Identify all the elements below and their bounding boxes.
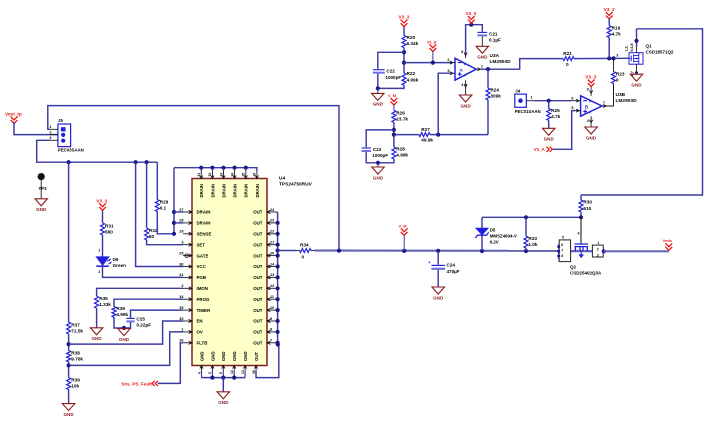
ground under R35 xyxy=(90,328,103,335)
capacitor C25 0.22uF xyxy=(126,317,134,319)
svg-text:OUT: OUT xyxy=(253,286,263,291)
svg-text:8: 8 xyxy=(461,50,463,54)
connector J4 PEC01SAAN xyxy=(515,94,527,107)
svg-text:25: 25 xyxy=(179,251,183,255)
wire R38-R39 xyxy=(68,362,70,378)
capacitor C24 470uF xyxy=(437,251,439,265)
svg-text:C23: C23 xyxy=(373,147,382,152)
svg-text:DRAIN: DRAIN xyxy=(244,184,249,198)
wire R36 bottom to C25 bottom xyxy=(114,317,131,328)
svg-text:1: 1 xyxy=(49,125,51,129)
svg-text:R36: R36 xyxy=(116,306,125,311)
svg-text:30: 30 xyxy=(179,262,183,266)
resistor R30 510 xyxy=(580,195,582,200)
wire ground stem xyxy=(222,378,224,392)
wire C21 to ground xyxy=(481,36,483,46)
wire node through R27 xyxy=(394,134,419,136)
svg-text:2: 2 xyxy=(447,58,449,62)
wire R37-R38 xyxy=(68,334,70,351)
svg-text:LM2903D: LM2903D xyxy=(616,98,638,104)
svg-text:GND: GND xyxy=(433,295,444,300)
wire R20 to R22 node xyxy=(403,48,405,74)
svg-text:Q2: Q2 xyxy=(570,265,577,270)
svg-text:J4: J4 xyxy=(515,89,520,94)
bottom ground bus xyxy=(201,371,203,378)
svg-text:0.1µF: 0.1µF xyxy=(489,38,501,43)
svg-text:1: 1 xyxy=(598,241,600,245)
IC top pin stubs xyxy=(200,171,202,179)
wire bus to R37 xyxy=(68,162,70,322)
svg-text:12: 12 xyxy=(230,370,234,374)
svg-text:36: 36 xyxy=(252,370,256,374)
svg-text:V3_3: V3_3 xyxy=(399,15,410,20)
svg-text:32: 32 xyxy=(208,173,212,177)
wire C23 bottom node xyxy=(366,152,394,163)
svg-text:35: 35 xyxy=(242,173,246,177)
ground under TP3 xyxy=(35,199,48,206)
svg-text:OUT: OUT xyxy=(253,210,263,215)
svg-text:DRAIN: DRAIN xyxy=(210,184,215,198)
svg-text:+: + xyxy=(428,260,431,265)
svg-text:V3_3: V3_3 xyxy=(585,75,596,80)
wire bus to R32 xyxy=(146,162,148,228)
GATE pin bubble xyxy=(185,254,188,257)
svg-text:4: 4 xyxy=(197,372,201,374)
U3A output xyxy=(476,68,480,70)
junction dots on input bus xyxy=(67,160,71,164)
zener D5 MMSZ4694-V xyxy=(481,217,483,228)
resistor R26 23.7k xyxy=(392,110,396,122)
wire R25 to ground xyxy=(548,121,550,129)
svg-text:5: 5 xyxy=(562,236,564,240)
U3B V- pin4 to ground xyxy=(590,116,592,120)
svg-text:A: A xyxy=(460,67,464,73)
svg-text:7: 7 xyxy=(561,249,563,253)
test point TP3 xyxy=(38,173,45,180)
OUT bus right xyxy=(277,212,279,345)
ground under C21 xyxy=(476,46,489,53)
op-amp U3B LM2903D xyxy=(581,96,602,116)
svg-text:36: 36 xyxy=(253,173,257,177)
svg-text:OUT: OUT xyxy=(253,341,263,346)
resistor R31 560 xyxy=(101,223,105,235)
svg-text:GND: GND xyxy=(210,351,215,361)
resistor R25 4.7k xyxy=(548,101,550,109)
wire TIMER to C25 xyxy=(131,310,184,318)
resistor R28 4.99k xyxy=(392,147,396,159)
Q2 left pin box xyxy=(559,240,570,262)
svg-text:C21: C21 xyxy=(489,31,498,36)
svg-text:GND: GND xyxy=(36,207,47,212)
svg-text:LM2903D: LM2903D xyxy=(490,59,512,65)
svg-text:13: 13 xyxy=(270,273,274,277)
svg-text:1: 1 xyxy=(481,65,483,69)
svg-text:7: 7 xyxy=(270,339,272,343)
wire riser to U3A pin3 xyxy=(438,73,451,134)
svg-text:OUT: OUT xyxy=(254,352,259,361)
ground under R36/C25 xyxy=(118,329,131,336)
drain-sense pin bus xyxy=(173,168,175,234)
svg-text:5,6,8: 5,6,8 xyxy=(630,44,634,52)
svg-text:34: 34 xyxy=(230,173,234,177)
wire V3_3 to R31 xyxy=(102,211,104,223)
svg-text:GND: GND xyxy=(199,351,204,361)
svg-text:5: 5 xyxy=(208,372,212,374)
capacitor C21 0.1uF xyxy=(477,31,487,33)
svg-text:1: 1 xyxy=(98,249,100,253)
svg-text:U3B: U3B xyxy=(616,92,626,98)
svg-text:9.76k: 9.76k xyxy=(71,357,83,362)
svg-text:GND: GND xyxy=(586,135,597,140)
svg-text:470µF: 470µF xyxy=(447,269,460,274)
svg-text:20: 20 xyxy=(270,251,274,255)
resistor R38 9.76k xyxy=(67,351,71,362)
svg-text:SET: SET xyxy=(197,242,206,247)
svg-text:OUT: OUT xyxy=(253,319,263,324)
wire R26 to node xyxy=(393,122,395,147)
svg-text:GND: GND xyxy=(477,55,488,60)
svg-text:4: 4 xyxy=(578,232,580,236)
svg-text:R25: R25 xyxy=(551,108,560,113)
svg-text:6.2V: 6.2V xyxy=(490,240,499,245)
svg-text:3: 3 xyxy=(181,241,183,245)
svg-text:11: 11 xyxy=(270,295,274,299)
svg-text:4.99k: 4.99k xyxy=(116,312,128,317)
wire bus to R29 xyxy=(156,162,158,199)
svg-text:D5: D5 xyxy=(490,228,496,233)
svg-text:R22: R22 xyxy=(407,71,416,76)
svg-text:4: 4 xyxy=(587,119,589,123)
svg-text:V3_3: V3_3 xyxy=(604,7,615,12)
IC right pin stubs xyxy=(267,211,278,213)
svg-text:R38: R38 xyxy=(71,351,80,356)
svg-text:1.33k: 1.33k xyxy=(99,302,111,307)
svg-text:4.99k: 4.99k xyxy=(396,153,408,158)
svg-text:50: 50 xyxy=(149,234,155,239)
svg-text:2: 2 xyxy=(181,284,183,288)
svg-text:U3A: U3A xyxy=(490,53,500,59)
ground under R39 xyxy=(62,404,75,411)
wire bottom OUT pin loop xyxy=(256,345,279,378)
resistor R34 0 xyxy=(300,249,312,253)
svg-text:22: 22 xyxy=(270,230,274,234)
svg-text:OUT: OUT xyxy=(253,297,263,302)
svg-text:R27: R27 xyxy=(421,127,430,132)
svg-text:R39: R39 xyxy=(71,378,80,383)
wire feedback loop from Q1 xyxy=(581,29,703,195)
svg-text:GATE: GATE xyxy=(197,253,209,258)
resistor R29 0.1 xyxy=(155,200,159,212)
svg-text:C25: C25 xyxy=(136,316,145,321)
svg-text:CSD25402Q3A: CSD25402Q3A xyxy=(570,271,602,276)
resistor R27 49.9k xyxy=(419,133,430,137)
svg-text:V-: V- xyxy=(464,74,467,78)
svg-text:5: 5 xyxy=(571,106,573,110)
svg-text:309k: 309k xyxy=(490,94,501,99)
svg-text:R19: R19 xyxy=(612,26,621,31)
svg-text:3: 3 xyxy=(49,136,51,140)
svg-text:FLTB: FLTB xyxy=(197,341,208,346)
resistor R36 4.99k xyxy=(112,307,116,318)
resistor R39 10k xyxy=(67,378,71,390)
svg-text:GND: GND xyxy=(373,175,384,180)
transistor Q2 CSD25402Q3A xyxy=(575,244,589,247)
svg-text:27: 27 xyxy=(179,208,183,212)
svg-text:12: 12 xyxy=(270,284,274,288)
svg-text:TP3: TP3 xyxy=(39,186,48,191)
svg-text:GND: GND xyxy=(63,412,74,417)
svg-text:B: B xyxy=(585,104,589,110)
svg-text:D6: D6 xyxy=(113,257,119,262)
svg-text:IMON: IMON xyxy=(197,286,208,291)
svg-text:49.9k: 49.9k xyxy=(421,138,433,143)
resistor R22 4.99k xyxy=(402,73,406,85)
svg-text:DRAIN: DRAIN xyxy=(197,221,211,226)
svg-text:1: 1 xyxy=(181,328,183,332)
svg-text:3: 3 xyxy=(447,69,449,73)
net label Sns_PS_Fault xyxy=(152,381,158,386)
svg-text:R34: R34 xyxy=(300,243,309,248)
ground under Q1 xyxy=(630,74,643,81)
svg-text:EN: EN xyxy=(197,319,203,324)
svg-text:GND: GND xyxy=(119,337,130,342)
svg-text:33: 33 xyxy=(179,317,183,321)
svg-text:PGB: PGB xyxy=(197,275,207,280)
wire R39 to ground xyxy=(68,390,70,404)
resistor R19 4.7k xyxy=(607,26,611,38)
svg-text:U4: U4 xyxy=(279,176,285,182)
svg-text:R21: R21 xyxy=(563,51,572,56)
svg-text:OV: OV xyxy=(197,330,203,335)
wire D6 to PGB pin xyxy=(103,266,184,277)
svg-text:2: 2 xyxy=(49,130,51,134)
svg-text:GND: GND xyxy=(218,400,229,405)
svg-text:510: 510 xyxy=(583,206,591,211)
IC bottom pin stubs xyxy=(201,366,203,372)
svg-text:1: 1 xyxy=(531,96,533,100)
svg-text:V1_A: V1_A xyxy=(534,147,546,152)
ground under C24 xyxy=(432,287,445,294)
svg-text:1.0k: 1.0k xyxy=(528,242,538,247)
svg-text:V3_3: V3_3 xyxy=(96,198,107,203)
svg-text:R29: R29 xyxy=(160,200,169,205)
svg-text:GND: GND xyxy=(221,351,226,361)
svg-text:R30: R30 xyxy=(583,200,592,205)
wire J5 pin1 loop to OUT rail xyxy=(48,106,339,252)
svg-text:8: 8 xyxy=(270,328,272,332)
svg-text:0.22µF: 0.22µF xyxy=(136,323,151,328)
wire Q2 gate xyxy=(580,217,582,244)
wire R29 to SENSE node xyxy=(157,212,174,234)
resistor R23 0 xyxy=(613,58,615,71)
svg-text:1,2,: 1,2, xyxy=(625,46,629,52)
wire rail through Q2 xyxy=(571,250,593,252)
wire V3_3 to R19 xyxy=(608,19,610,26)
ground under C22 xyxy=(377,88,379,93)
svg-text:V_M: V_M xyxy=(388,93,396,98)
svg-text:Vout_tp: Vout_tp xyxy=(5,112,22,117)
wire J4 to U3B pin6 xyxy=(534,100,571,102)
svg-text:V1_8: V1_8 xyxy=(427,40,437,45)
wire PROG to R36 xyxy=(114,299,183,306)
J5 pin stubs xyxy=(50,129,58,140)
svg-text:0: 0 xyxy=(566,62,569,67)
svg-text:DRAIN: DRAIN xyxy=(199,184,204,198)
svg-text:OUT: OUT xyxy=(253,242,263,247)
svg-text:DRAIN: DRAIN xyxy=(255,184,260,198)
wire OV divider tap xyxy=(69,332,183,366)
svg-text:SENSE: SENSE xyxy=(197,232,212,237)
svg-text:8: 8 xyxy=(587,88,589,92)
svg-text:GND: GND xyxy=(243,351,248,361)
svg-text:R32: R32 xyxy=(149,228,158,233)
wire V1_A to U3B pin5 xyxy=(553,111,575,150)
svg-text:0.1: 0.1 xyxy=(160,206,167,211)
svg-text:OUT: OUT xyxy=(253,232,263,237)
svg-text:2: 2 xyxy=(597,248,599,252)
svg-text:VCC: VCC xyxy=(197,264,207,269)
svg-text:71.5k: 71.5k xyxy=(71,329,83,334)
resistor R37 71.5k xyxy=(67,322,71,334)
svg-text:0: 0 xyxy=(616,78,619,83)
svg-text:23: 23 xyxy=(270,219,274,223)
svg-text:Q1: Q1 xyxy=(646,44,653,49)
wire node to C22 xyxy=(378,52,404,69)
svg-text:31: 31 xyxy=(197,173,201,177)
main output rail xyxy=(315,249,559,252)
svg-text:GND: GND xyxy=(232,351,237,361)
wire R19 to gate node xyxy=(608,38,610,59)
svg-text:9: 9 xyxy=(270,317,272,321)
svg-text:V3_3: V3_3 xyxy=(466,11,477,16)
svg-text:DRAIN: DRAIN xyxy=(233,184,238,198)
svg-text:OUT: OUT xyxy=(253,253,263,258)
gate rail top xyxy=(482,216,581,218)
svg-text:26: 26 xyxy=(179,339,183,343)
svg-text:28: 28 xyxy=(179,219,183,223)
svg-text:6: 6 xyxy=(571,96,573,100)
svg-text:OUT: OUT xyxy=(253,264,263,269)
svg-text:6: 6 xyxy=(219,372,223,374)
wire C24 to ground xyxy=(437,270,439,287)
svg-text:10: 10 xyxy=(270,306,274,310)
svg-text:GND: GND xyxy=(631,83,642,88)
svg-text:V_M: V_M xyxy=(399,223,407,228)
IC U4 TPS24750RUV body xyxy=(192,179,267,366)
connector J5 PEC03SAAN xyxy=(58,124,71,147)
svg-text:OUT: OUT xyxy=(253,221,263,226)
svg-text:31: 31 xyxy=(179,273,183,277)
svg-text:GND: GND xyxy=(460,103,471,108)
U3B output pin7 xyxy=(602,105,606,107)
wire FLTB to Sns_PS_Fault xyxy=(158,343,183,384)
svg-text:7: 7 xyxy=(603,101,605,105)
svg-text:1000pF: 1000pF xyxy=(385,75,401,80)
capacitor C22 1000pF xyxy=(373,69,385,71)
svg-text:V-: V- xyxy=(589,111,592,115)
svg-text:PEC01SAAN: PEC01SAAN xyxy=(515,109,541,114)
svg-text:J5: J5 xyxy=(58,118,63,123)
svg-text:R35: R35 xyxy=(99,296,108,301)
svg-text:R20: R20 xyxy=(407,35,416,40)
svg-text:OUT: OUT xyxy=(253,330,263,335)
wire IMON to R35 xyxy=(97,288,183,296)
svg-text:3: 3 xyxy=(597,253,599,257)
Q2 right pin box xyxy=(592,245,603,257)
svg-text:13: 13 xyxy=(241,370,245,374)
resistor R35 1.33k xyxy=(95,296,99,308)
ground under U4 xyxy=(217,392,230,399)
wire J5 pin3 to input bus xyxy=(37,140,158,162)
resistor R20 6.34k xyxy=(402,35,406,47)
wire V3_3 to R20 xyxy=(403,27,405,36)
svg-text:R26: R26 xyxy=(396,111,405,116)
wire bus to VCC pin xyxy=(136,162,183,266)
svg-text:R31: R31 xyxy=(105,223,114,228)
transistor Q1 CSD18571Q2 xyxy=(629,53,643,64)
svg-text:R37: R37 xyxy=(71,323,80,328)
wire R31 to D6 xyxy=(102,235,104,257)
svg-text:4: 4 xyxy=(461,83,463,87)
svg-text:V+: V+ xyxy=(589,99,593,103)
svg-text:6: 6 xyxy=(561,243,563,247)
U3A V- pin4 to ground xyxy=(465,80,467,84)
svg-text:GND: GND xyxy=(544,137,555,142)
drain top bus xyxy=(174,168,257,171)
resistor R24 309k xyxy=(487,69,489,88)
svg-text:4.99k: 4.99k xyxy=(407,77,419,82)
svg-text:C24: C24 xyxy=(447,263,456,268)
svg-text:MMSZ4694-V: MMSZ4694-V xyxy=(490,234,517,239)
wire EN divider tap xyxy=(69,321,183,344)
U3B V+ pin8 xyxy=(590,92,592,96)
capacitor C23 1000pF xyxy=(362,147,372,149)
resistor R21 0 xyxy=(563,57,574,61)
svg-text:Sns_PS_Fault: Sns_PS_Fault xyxy=(121,381,152,386)
svg-text:C22: C22 xyxy=(386,69,395,74)
ground under R25 xyxy=(542,128,555,135)
wire R32 to SET pin xyxy=(147,240,183,245)
svg-text:R28: R28 xyxy=(396,147,405,152)
svg-text:2: 2 xyxy=(98,270,100,274)
svg-text:560: 560 xyxy=(105,229,113,234)
svg-text:DRAIN: DRAIN xyxy=(197,210,211,215)
svg-text:V+: V+ xyxy=(464,62,468,66)
wire R35 to ground xyxy=(96,308,98,328)
wire divider to U3A pin2 xyxy=(404,62,451,64)
svg-text:R23: R23 xyxy=(616,72,625,77)
svg-text:4.7k: 4.7k xyxy=(551,114,561,119)
ground under C23 xyxy=(377,163,379,167)
svg-text:OUT: OUT xyxy=(253,275,263,280)
op-amp U3A LM2903D xyxy=(455,58,476,80)
svg-text:4.7k: 4.7k xyxy=(612,32,622,37)
ground under U3A xyxy=(459,95,472,102)
svg-text:29: 29 xyxy=(179,230,183,234)
svg-text:TIMER: TIMER xyxy=(197,308,211,313)
Q1 drain pins xyxy=(636,47,638,53)
svg-text:Vmic: Vmic xyxy=(663,238,673,243)
resistor R33 1.0k xyxy=(525,217,527,236)
svg-text:8: 8 xyxy=(561,254,563,258)
svg-text:3: 3 xyxy=(616,53,618,57)
svg-text:35: 35 xyxy=(179,306,183,310)
svg-text:21: 21 xyxy=(270,241,274,245)
U3A V+ pin8 xyxy=(465,54,467,58)
svg-text:Green: Green xyxy=(113,263,126,268)
Q1 source pin to ground xyxy=(636,64,638,73)
svg-text:R33: R33 xyxy=(528,236,537,241)
